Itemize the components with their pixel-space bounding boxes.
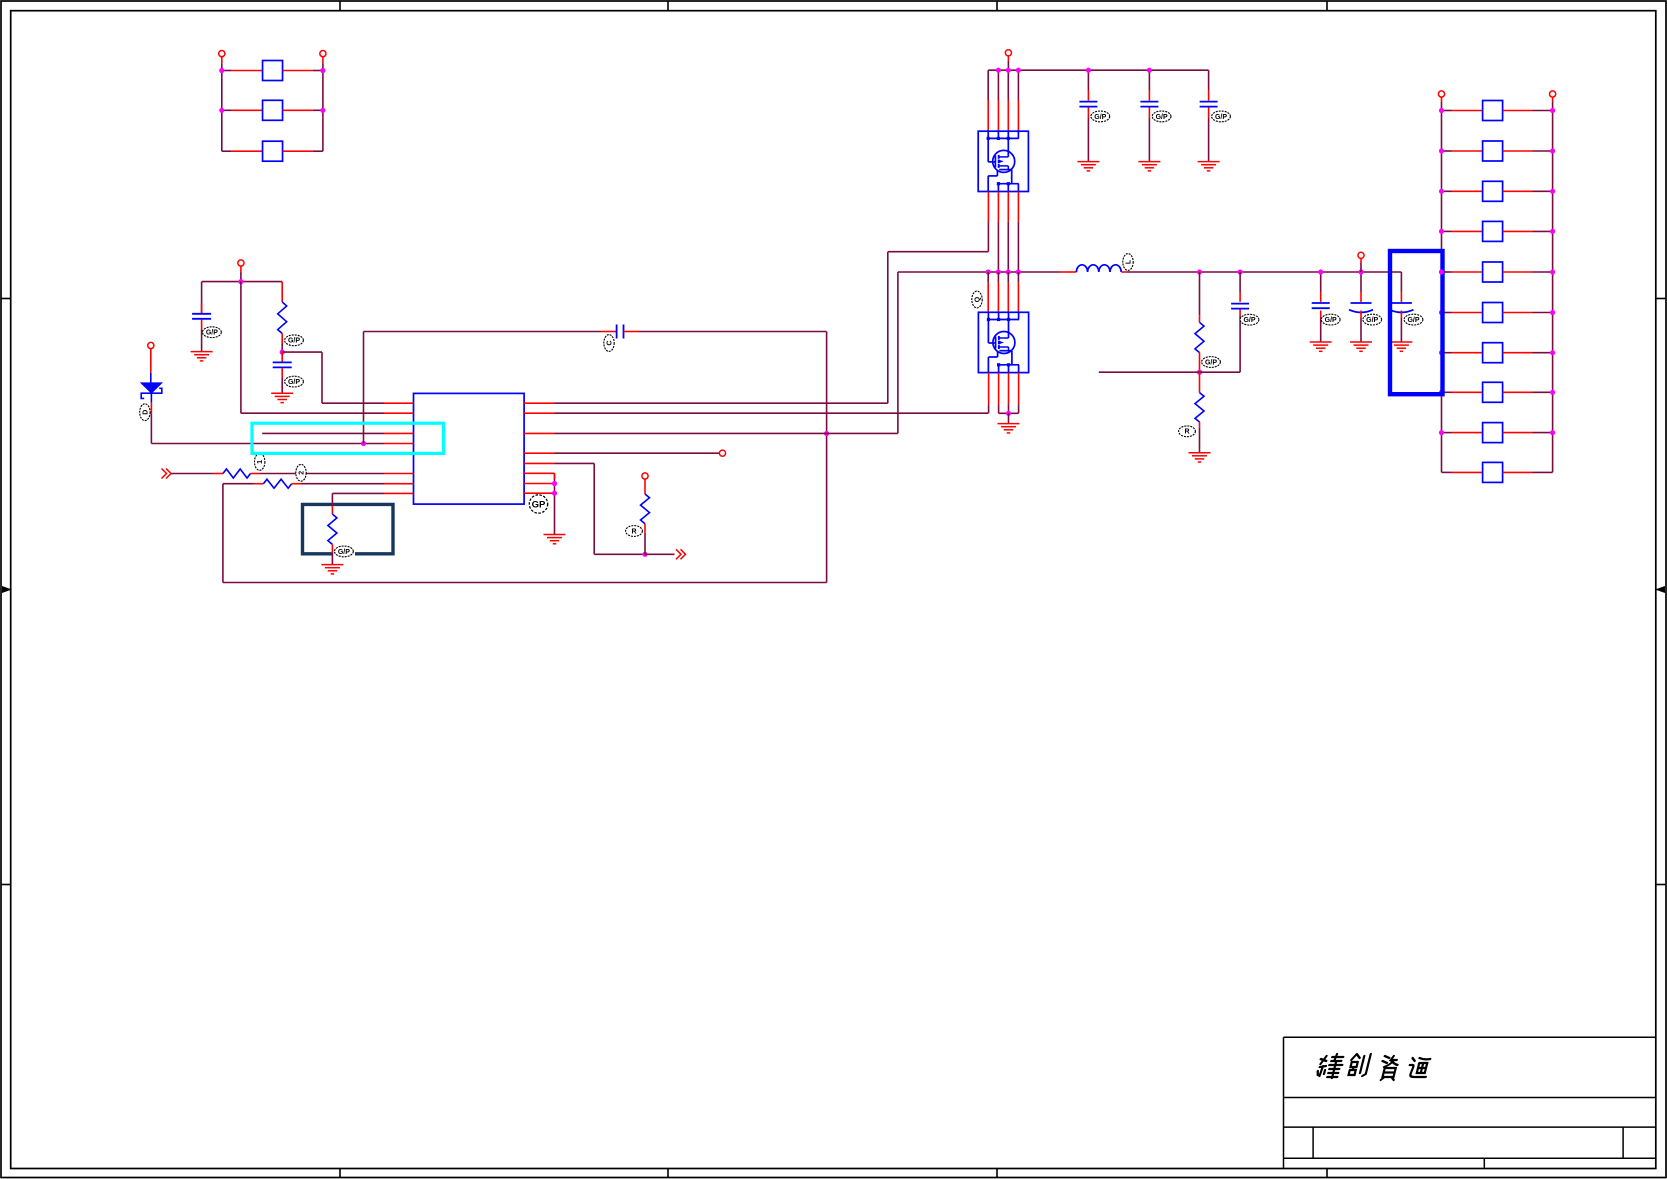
port P6 R5 top [642, 473, 648, 479]
border center arrow right [1655, 586, 1665, 593]
svg-text:G/P: G/P [1215, 114, 1227, 121]
resistor R4 top pin [331, 506, 333, 514]
border zone tick bottom x=668 [667, 1169, 669, 1178]
junction LX col1 [986, 269, 991, 274]
resistor RN5 [1483, 262, 1503, 282]
port P3 VCC [238, 260, 244, 266]
wire C9 stem [1360, 272, 1362, 292]
wire ladder row3 left [1442, 190, 1483, 192]
capacitor C7 top pin [1239, 292, 1241, 302]
power label G/P C4 [1091, 111, 1110, 122]
junction out C9 [1358, 269, 1363, 274]
port P2 right [320, 51, 326, 57]
ground C1 [191, 352, 213, 361]
IC U1 right pin y=483.5 [524, 483, 554, 485]
junction ladder row2 right [1550, 148, 1555, 153]
wire C6 stem [1208, 70, 1210, 90]
highlight box blue [1390, 251, 1443, 394]
label R2 [296, 464, 306, 481]
capacitor C5 bottom pin [1148, 108, 1150, 119]
wire bootstrap right segment [639, 332, 827, 434]
zener D1 top pin red [150, 349, 152, 373]
power label G/P C10 [1404, 314, 1423, 325]
wire LX bus [898, 271, 1061, 273]
power label G/P C9 [1363, 314, 1382, 325]
capacitor C2 bottom pin [281, 368, 283, 378]
wire LX to output [1127, 271, 1402, 273]
wire ladder row1 left [1442, 110, 1483, 112]
wire ladder row6 right [1503, 312, 1553, 314]
svg-text:G/P: G/P [1243, 317, 1255, 324]
wire C2 to ground [281, 378, 283, 393]
wire ladder row7 left [1442, 352, 1483, 354]
power label G/P C2 [285, 376, 304, 387]
wire ladder left rail [1441, 111, 1443, 473]
capacitor C10 [1389, 303, 1413, 312]
IC U1 right pin y=413.2 [524, 412, 554, 414]
junction out C8 [1318, 269, 1323, 274]
junction FB [1197, 370, 1202, 375]
capacitor C9 top pin [1360, 292, 1362, 302]
junction node A [238, 279, 243, 284]
transistor Q1 [978, 131, 1028, 191]
junction ladder row5 left re-draw [1439, 269, 1444, 274]
IC U1 right pin y=473.3 [524, 472, 554, 474]
svg-text:G/P: G/P [1366, 317, 1378, 324]
wire ladder row3 right [1503, 190, 1553, 192]
port P8 VOUT [1358, 252, 1364, 258]
resistor R5 top pin [644, 479, 646, 494]
wire row1 left segment [222, 70, 263, 72]
ground R7 [1189, 453, 1211, 462]
ground C4 [1077, 162, 1099, 171]
port P9 ladder left [1438, 91, 1444, 97]
svg-text:2: 2 [298, 471, 305, 475]
wire Q1 gate down [987, 222, 989, 252]
wire row1 right segment [283, 70, 323, 72]
power label G/P C1 [203, 327, 222, 338]
wire P3 stem [240, 266, 242, 282]
svg-text:G/P: G/P [1407, 317, 1419, 324]
capacitor C3 bootstrap [617, 325, 624, 339]
junction row2 left [219, 108, 224, 113]
junction bootstrap/pin433 [824, 431, 829, 436]
power label G/P C8 [1321, 314, 1340, 325]
junction output R6 [1197, 269, 1202, 274]
MOSFET Q1 source pin x=1008.3 red [1007, 192, 1009, 222]
title text 緯創資通 [1316, 1054, 1430, 1080]
junction row1 left [219, 68, 224, 73]
wire C9 to ground [1360, 318, 1362, 342]
border zone tick bottom x=997 [996, 1169, 998, 1178]
svg-text:G/P: G/P [1156, 114, 1168, 121]
wire Q1 source col x=1008.3 [1007, 222, 1009, 272]
junction bus C5 [1147, 68, 1152, 73]
resistor R3 left pin [253, 483, 263, 485]
wire R3 to IC pin483 [302, 483, 385, 485]
capacitor C4 bottom pin [1087, 108, 1089, 119]
wire ladder row7 right [1503, 352, 1553, 354]
capacitor C8 [1312, 303, 1330, 308]
wire VIN stem [1007, 56, 1009, 70]
junction ladder row1 right [1550, 108, 1555, 113]
wire ladder row5 left [1442, 271, 1483, 273]
junction ladder row2 left [1439, 148, 1444, 153]
wire Q2 source join [999, 404, 1019, 413]
junction LX col3 [1006, 269, 1011, 274]
capacitor C4 [1079, 102, 1097, 107]
ground C8 [1310, 342, 1332, 351]
wire Q1 drain col2 [997, 70, 999, 100]
wire P10 stem [1552, 97, 1554, 110]
wire row2 right segment [283, 109, 323, 111]
power label G/P C6 [1212, 111, 1231, 122]
wire FB stub left [1099, 371, 1200, 373]
resistor RN10 [1483, 462, 1503, 482]
MOSFET Q1 drain pin2 red [997, 100, 999, 131]
svg-text:GP: GP [532, 499, 546, 510]
capacitor C10 bottom pin [1400, 311, 1402, 319]
svg-text:G/P: G/P [1325, 317, 1337, 324]
port P10 ladder right [1550, 91, 1556, 97]
capacitor C2 [273, 362, 292, 367]
MOSFET Q2 drain pin x=988.2 red [987, 282, 989, 312]
wire row3 right segment [283, 150, 323, 152]
svg-text:R: R [631, 528, 636, 535]
capacitor C1 top pin [201, 303, 203, 313]
zener D1 anode lead [150, 373, 152, 383]
wire pin473 down [554, 473, 556, 534]
zener D1 triangle [141, 383, 162, 393]
wire C1 to ground [201, 330, 203, 352]
resistor R5 bottom pin [644, 524, 646, 534]
wire bootstrap vertical [363, 332, 365, 444]
wire Q2 source to ground [1008, 413, 1010, 423]
resistor R7 bottom pin [1199, 422, 1201, 427]
junction ladder row8 left [1439, 390, 1444, 395]
capacitor C8 bottom pin [1320, 311, 1322, 319]
wire ladder row8 left [1442, 391, 1483, 393]
label L1 [1123, 254, 1133, 271]
label Q2 [972, 291, 982, 308]
wire C6 to ground [1208, 118, 1210, 161]
wire R4 to ground [331, 554, 333, 565]
power label G/P C7 [1240, 314, 1259, 325]
svg-text:G/P: G/P [206, 330, 218, 337]
wire P8 stem [1360, 258, 1362, 272]
MOSFET Q1 drain pin3 red [1007, 100, 1009, 131]
MOSFET Q2 source pin x=998.6 red [998, 373, 1000, 405]
offpage connector left chevron [162, 469, 172, 479]
highlight box navy [303, 504, 394, 553]
junction row2 right [320, 108, 325, 113]
wire pin473 corner red [554, 473, 556, 479]
power label G/P R4 [335, 546, 354, 557]
wire junction to chevron right [645, 553, 675, 555]
MOSFET Q1 drain pin1 red [987, 100, 989, 131]
wire C4 stem [1087, 70, 1089, 90]
resistor RN9 [1483, 423, 1503, 443]
label C3 [604, 335, 614, 352]
capacitor C3 left pin [601, 331, 617, 333]
wire ladder row10 right [1503, 471, 1553, 473]
wire Q1 source col x=1018.4 [1017, 222, 1019, 272]
svg-text:G/P: G/P [1094, 114, 1106, 121]
junction ladder row4 left [1439, 229, 1444, 234]
zener D1 cathode bar [141, 388, 162, 398]
wire Q1 drain col3 [1007, 70, 1009, 100]
IC U1 left pin y=413.2 [384, 412, 414, 414]
wire pin433 to LX [555, 272, 898, 433]
wire C5 stem [1148, 70, 1150, 90]
svg-text:1: 1 [257, 460, 264, 464]
MOSFET Q2 gate pin red [988, 373, 990, 405]
port P4 zener [148, 342, 154, 348]
MOSFET Q2 source pin x=1008.5 red [1008, 373, 1010, 405]
capacitor C2 top pin [281, 352, 283, 362]
ground C5 [1138, 162, 1160, 171]
MOSFET Q1 gate pin red [987, 192, 989, 222]
wire node A horizontal [202, 281, 283, 283]
IC U1 right pin y=453.2 [524, 452, 554, 454]
junction output C7 [1238, 269, 1243, 274]
border zone tick top x=997 [996, 1, 998, 11]
resistor RN6 [1483, 303, 1503, 323]
wire ladder row9 right [1503, 432, 1553, 434]
wire Q1 drain col4 [1017, 70, 1019, 100]
resistor RN3 [1483, 181, 1503, 201]
resistor R2 left pin [213, 473, 223, 475]
ground R4 [321, 565, 343, 574]
port P5 pin453 [719, 450, 725, 456]
ground C2 [271, 393, 293, 402]
inductor L1 right pin [1121, 271, 1126, 273]
wire row2 left segment [222, 109, 263, 111]
MOSFET Q1 drain pin4 red [1017, 100, 1019, 131]
svg-text:G/P: G/P [1205, 359, 1217, 366]
junction bus C4 [1086, 68, 1091, 73]
IC U1 left pin y=483.7 [384, 483, 414, 485]
border zone tick top x=668 [667, 1, 669, 11]
svg-text:L: L [1125, 259, 1132, 264]
power label G/P R6 [1202, 357, 1221, 368]
border zone tick bottom x=340 [339, 1169, 341, 1178]
capacitor C7 [1231, 304, 1249, 309]
zener D1 bottom pin red [150, 402, 152, 413]
junction pin443/bootstrap [361, 441, 366, 446]
capacitor C6 bottom pin [1208, 108, 1210, 119]
capacitor C6 top pin [1208, 90, 1210, 101]
IC U1 body [414, 393, 525, 504]
wire P9 stem [1441, 97, 1443, 110]
wire ladder row8 right [1503, 391, 1553, 393]
resistor RN4 [1483, 221, 1503, 241]
junction ladder row8 right [1550, 390, 1555, 395]
IC U1 right pin y=433.4 [524, 432, 554, 434]
IC U1 right pin y=463.4 [524, 462, 554, 464]
junction ladder row3 right [1550, 189, 1555, 194]
junction LX col2 [996, 269, 1001, 274]
wire chevron to R2 [171, 473, 213, 475]
resistor R5 [641, 494, 650, 524]
resistor RN8 [1483, 382, 1503, 402]
wire FB to C7 [1200, 315, 1241, 372]
svg-text:C: C [606, 340, 613, 345]
capacitor C1 [192, 314, 211, 319]
svg-text:R: R [1184, 429, 1189, 436]
wire bottom loop [223, 434, 827, 583]
junction row1 right [320, 68, 325, 73]
wire ladder row2 right [1503, 150, 1553, 152]
IC U1 left pin y=443.5 [384, 443, 414, 445]
svg-text:G/P: G/P [338, 549, 350, 556]
capacitor C1 stem top [201, 282, 203, 313]
svg-text:Q: Q [974, 296, 981, 302]
wire right rail top group [322, 71, 324, 152]
border zone tick top x=1327 [1326, 1, 1328, 11]
wire Q1 source col x=998.4 [997, 222, 999, 272]
ground IC [544, 535, 566, 544]
IC U1 left pin y=493.4 [384, 492, 414, 494]
wire node A down to pin413 row [241, 282, 384, 414]
wire R2 to IC pin473 [260, 473, 384, 475]
wire Q2 drain col x=1008.3 [1007, 272, 1009, 282]
resistor R6 top pin [1199, 315, 1201, 322]
inductor L1 left pin [1061, 271, 1077, 273]
jumper J3 [263, 141, 283, 161]
IC U1 left pin y=403.2 [384, 402, 414, 404]
junction Q2 source [1006, 411, 1011, 416]
inductor L1 [1076, 265, 1121, 272]
border center arrow left [2, 586, 12, 593]
wire loop left vertical [222, 484, 224, 583]
ground Q2 [998, 424, 1020, 433]
wire C10 stem [1400, 272, 1402, 292]
power label G/P C5 [1152, 111, 1171, 122]
capacitor C4 top pin [1087, 90, 1089, 101]
wire C7 top [1239, 272, 1241, 292]
wire bootstrap top horizontal [364, 331, 602, 333]
resistor R2 right pin [251, 473, 261, 475]
wire row3 left segment [222, 150, 263, 152]
wire P1 stem [221, 57, 223, 71]
resistor R7 top pin [1199, 372, 1201, 392]
jumper J1 [263, 61, 283, 81]
port P1 left [219, 51, 225, 57]
wire ladder row4 left [1442, 230, 1483, 232]
MOSFET Q2 drain pin x=998.4 red [997, 282, 999, 312]
port P7 VIN [1005, 50, 1011, 56]
IC U1 right pin y=403.2 [524, 402, 554, 404]
zener D1 cathode lead [150, 393, 152, 402]
capacitor C9 bottom pin [1360, 311, 1362, 319]
wire pin493 to R4 [332, 493, 384, 505]
wire C10 to ground [1400, 318, 1402, 342]
junction bus col3 port [1006, 68, 1011, 73]
IC U1 left pin y=473.5 [384, 473, 414, 475]
wire R1 to junction [281, 344, 283, 353]
wire Q2 drain col x=988.2 [987, 272, 989, 282]
wire C4 to ground [1087, 118, 1089, 161]
capacitor C9 [1349, 303, 1373, 312]
junction pin493 [552, 491, 557, 496]
ground C10 [1390, 342, 1412, 351]
resistor R2 [223, 469, 251, 478]
capacitor C1 bottom pin [201, 320, 203, 330]
junction LX col4 [1016, 269, 1021, 274]
junction ladder row9 left [1439, 430, 1444, 435]
wire ladder row9 left [1442, 432, 1483, 434]
junction R1/C2 [280, 350, 285, 355]
border zone tick right y=884.5 [1656, 884, 1666, 886]
wire D1 to pin443 row [151, 414, 384, 444]
resistor R1 bottom pin [281, 334, 283, 344]
svg-text:D: D [142, 410, 149, 415]
junction bus col4 [1016, 68, 1021, 73]
wire Q2 drain col x=1018.4 [1017, 272, 1019, 282]
wire input bus [988, 70, 1208, 100]
offpage connector right chevron [676, 549, 686, 559]
label net1 [255, 454, 265, 471]
capacitor C3 right pin [624, 331, 640, 333]
ground C6 [1198, 162, 1220, 171]
junction ladder row9 right [1550, 430, 1555, 435]
border zone tick top x=340 [339, 1, 341, 11]
resistor R6 bottom pin [1199, 353, 1201, 371]
wire pin463 route [555, 463, 646, 554]
wire R3 left lead [223, 483, 253, 485]
junction ladder row3 left [1439, 189, 1444, 194]
wire ladder right rail [1552, 111, 1554, 473]
resistor R7 [1195, 393, 1204, 422]
label R5 [626, 526, 643, 537]
wire ladder row4 right [1503, 230, 1553, 232]
MOSFET Q2 drain pin x=1008.3 red [1007, 282, 1009, 312]
label D1 [140, 404, 150, 421]
MOSFET Q1 source pin x=998.4 red [997, 192, 999, 222]
MOSFET Q2 drain pin x=1018.4 red [1017, 282, 1019, 312]
resistor RN7 [1483, 343, 1503, 363]
wire Q2 gate corner [988, 404, 990, 413]
svg-text:G/P: G/P [288, 379, 300, 386]
wire pin403 to gate1 [555, 252, 989, 404]
wire P2 stem [322, 57, 324, 71]
wire R7 to ground [1199, 427, 1201, 452]
resistor R3 right pin [292, 483, 302, 485]
resistor R6 [1195, 322, 1204, 352]
junction pin483 [552, 481, 557, 486]
capacitor C6 [1200, 102, 1218, 107]
border zone tick left y=884.5 [1, 884, 11, 886]
wire C8 to ground [1320, 318, 1322, 342]
wire ladder row1 right [1503, 110, 1553, 112]
junction bus col2 [996, 68, 1001, 73]
wire pin433 stub net [262, 432, 384, 434]
capacitor C10 top pin [1400, 292, 1402, 302]
border zone tick left y=298.5 [1, 298, 11, 300]
junction R5 bottom [642, 552, 647, 557]
wire ladder row2 left [1442, 150, 1483, 152]
power label GP [529, 495, 547, 513]
wire C5 to ground [1148, 118, 1150, 161]
wire left rail top group [221, 71, 223, 152]
junction ladder row4 right [1550, 229, 1555, 234]
power label G/P R1 [285, 335, 304, 346]
resistor R3 [263, 479, 291, 488]
wire R6 top [1199, 272, 1201, 315]
wire junction to pin403 row [282, 352, 384, 403]
wire ladder row5 right [1503, 271, 1553, 273]
